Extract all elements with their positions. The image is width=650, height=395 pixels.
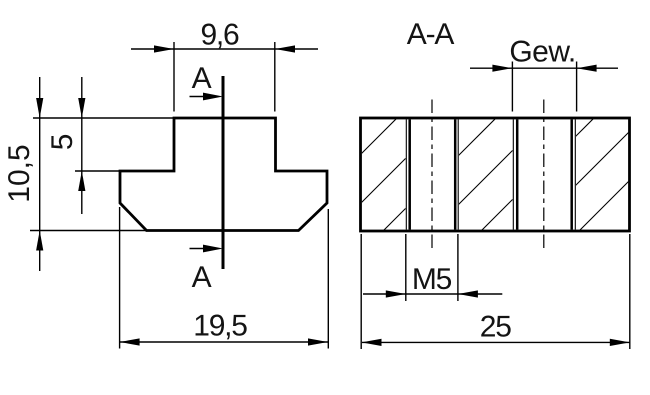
svg-text:A: A <box>192 62 212 95</box>
svg-text:A-A: A-A <box>407 18 455 51</box>
svg-text:9,6: 9,6 <box>200 19 239 52</box>
svg-text:Gew.: Gew. <box>509 36 575 69</box>
svg-text:A: A <box>192 261 212 294</box>
svg-text:5: 5 <box>46 134 79 150</box>
svg-text:10,5: 10,5 <box>3 144 36 202</box>
svg-text:M5: M5 <box>412 263 452 296</box>
svg-text:19,5: 19,5 <box>193 310 247 343</box>
svg-text:25: 25 <box>480 311 511 344</box>
